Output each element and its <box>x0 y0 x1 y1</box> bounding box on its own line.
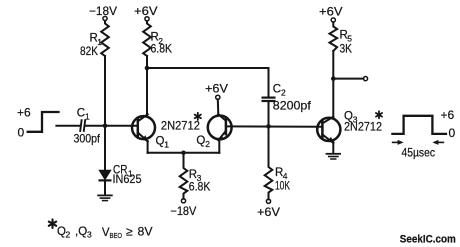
svg-text:−18V: −18V <box>170 204 196 218</box>
svg-text:Q: Q <box>196 135 205 147</box>
svg-text:8V: 8V <box>138 224 153 238</box>
diode CR1 <box>100 170 111 179</box>
svg-text:8200pf: 8200pf <box>273 99 312 113</box>
svg-text:+6V: +6V <box>205 82 228 96</box>
svg-text:Q: Q <box>156 135 165 147</box>
svg-text:+6: +6 <box>441 108 455 122</box>
svg-text:C: C <box>273 83 281 95</box>
wire C1 to Q1 base <box>85 125 138 127</box>
capacitor C1 plates <box>80 120 81 131</box>
arrow left (45usec) <box>393 141 401 143</box>
ground (under CR1) <box>98 194 112 196</box>
wire Q3 emitter to ground <box>332 142 334 153</box>
svg-text:45µsec: 45µsec <box>402 146 436 160</box>
resistor R4 <box>265 126 273 199</box>
svg-text:BEO: BEO <box>110 231 123 240</box>
terminal output <box>363 77 367 81</box>
wire emitter rail <box>148 152 220 154</box>
input step waveform <box>28 112 59 132</box>
svg-text:6.8K: 6.8K <box>189 180 211 194</box>
arrow right (45usec) <box>435 141 443 143</box>
asterisk (Q2) <box>195 113 201 120</box>
ground (under Q3) <box>327 153 341 155</box>
svg-text:2: 2 <box>205 139 210 149</box>
terminal +6V (R4 bottom) <box>266 199 270 203</box>
svg-text:0: 0 <box>449 126 456 140</box>
node A junction <box>103 124 108 129</box>
output pulse waveform <box>392 116 446 134</box>
transistor Q2 <box>208 116 232 140</box>
wire input lead <box>56 125 80 127</box>
node Q3 collector junction <box>331 76 336 81</box>
svg-text:+6V: +6V <box>319 5 343 19</box>
wire Q2 collector to +6V <box>217 99 220 114</box>
svg-text:IN625: IN625 <box>113 172 142 186</box>
wire R5 to Q3 collector <box>332 51 334 118</box>
transistor Q3 <box>317 118 340 141</box>
node B junction <box>266 124 271 129</box>
svg-text:≥: ≥ <box>126 224 133 238</box>
svg-text:+6: +6 <box>17 106 31 120</box>
wire top rail collector Q1 to C2 <box>147 68 269 97</box>
resistor R5 <box>330 22 338 51</box>
svg-text:3K: 3K <box>340 42 353 56</box>
svg-text:+6V: +6V <box>134 4 158 18</box>
resistor R1 <box>101 21 109 56</box>
wire output tap <box>333 78 363 80</box>
svg-text:0: 0 <box>18 126 25 140</box>
svg-text:82K: 82K <box>80 44 98 58</box>
svg-text:6.8K: 6.8K <box>151 42 173 56</box>
wire R2 bottom to collector node <box>146 56 148 68</box>
terminal +6V (R5 top) <box>331 18 335 22</box>
terminal -18V (R3 bottom) <box>181 199 185 203</box>
svg-text:300pf: 300pf <box>74 132 101 146</box>
svg-text:2N2712: 2N2712 <box>161 118 200 132</box>
svg-text:2: 2 <box>66 230 71 240</box>
transistor Q1 <box>132 116 155 139</box>
node emitter rail junction <box>181 151 186 156</box>
asterisk (Q3) <box>376 111 382 118</box>
svg-text:−18V: −18V <box>89 4 117 18</box>
svg-text:C: C <box>77 107 85 119</box>
wire Q2 base to Q3 base <box>226 125 322 127</box>
svg-text:2N2712: 2N2712 <box>344 120 382 134</box>
capacitor C2 plates <box>263 96 275 98</box>
svg-text:2: 2 <box>281 87 286 97</box>
wire R1 bottom to node A <box>104 56 106 126</box>
resistor R2 <box>143 21 151 56</box>
resistor R3 <box>180 153 188 199</box>
node Q1 collector junction <box>145 66 150 71</box>
diode CR1 anode wire <box>104 126 106 171</box>
wire Q2 emitter down <box>218 140 220 153</box>
svg-text:10K: 10K <box>275 179 290 193</box>
svg-text:3: 3 <box>87 230 92 240</box>
wire Q1 emitter down <box>147 141 149 153</box>
terminal -18V top <box>103 16 107 20</box>
terminal +6V (R2) <box>145 17 149 21</box>
svg-text:1: 1 <box>164 140 169 150</box>
svg-text:1: 1 <box>97 37 102 47</box>
svg-text:SeekIC.com: SeekIC.com <box>400 233 456 245</box>
svg-text:,Q: ,Q <box>75 226 87 238</box>
wire C2 bottom to node B <box>268 102 270 127</box>
asterisk (note) <box>49 219 56 228</box>
svg-text:1: 1 <box>85 111 90 121</box>
svg-text:+6V: +6V <box>257 205 280 219</box>
wire Q1 collector <box>146 68 148 115</box>
terminal +6V (Q2) <box>216 95 220 99</box>
